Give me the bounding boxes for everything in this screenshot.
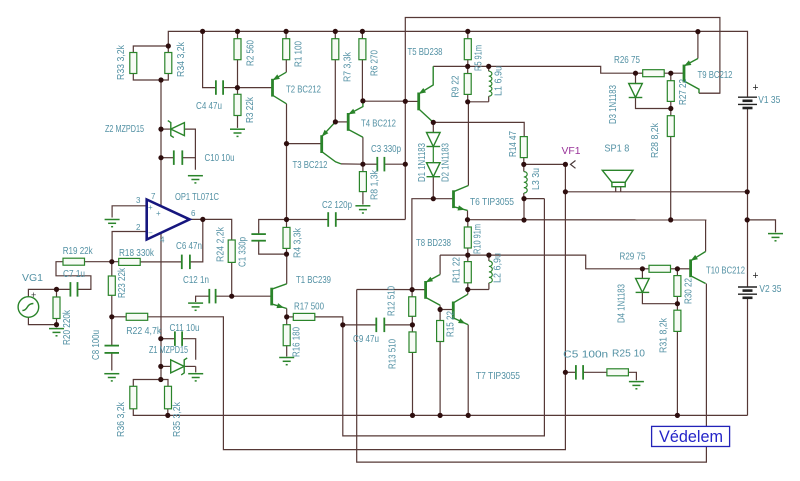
source VG1 <box>18 297 39 318</box>
ground R8 <box>355 206 370 213</box>
ground R3 <box>230 129 245 136</box>
node R33/R34 bottom <box>158 77 163 82</box>
svg-text:C6 47n: C6 47n <box>176 240 202 252</box>
wire L1 leads <box>488 66 490 71</box>
wire R5 bottom lead <box>467 60 469 67</box>
svg-text:2: 2 <box>136 223 141 232</box>
wire op-amp V+ column (node to Z2/C10) <box>160 80 162 206</box>
wire Z1/C11 ground stem <box>195 366 197 372</box>
svg-text:VG1: VG1 <box>22 272 43 284</box>
svg-text:R9 22: R9 22 <box>450 75 462 97</box>
wire R26 leads <box>636 72 643 74</box>
ground C8 <box>104 374 119 381</box>
transistor T8 BD238 PNP <box>426 275 441 306</box>
wire C4 branch <box>203 31 216 87</box>
wire L3 bottom to feedback column <box>524 198 544 200</box>
resistor R28 <box>667 116 674 137</box>
wire Z1 right lead <box>184 365 196 367</box>
wire R33/R34 bottom link <box>133 74 168 81</box>
svg-text:L3 3u: L3 3u <box>530 168 542 190</box>
svg-text:V2 35: V2 35 <box>759 283 781 295</box>
wire R6 leads <box>361 31 363 38</box>
svg-text:R4 3,3k: R4 3,3k <box>292 227 304 258</box>
capacitor C8 <box>105 346 120 353</box>
ground op-amp pin3 <box>105 220 120 227</box>
svg-text:R23 22k: R23 22k <box>116 267 128 298</box>
resistor R2 <box>234 39 241 60</box>
wire output node to VF1 <box>524 163 566 165</box>
wire R20 bottom to ground <box>56 319 58 328</box>
svg-text:T9 BC212: T9 BC212 <box>698 69 733 81</box>
svg-text:+: + <box>753 270 759 282</box>
node T5 base <box>403 99 408 104</box>
node y220 L3 <box>521 217 526 222</box>
wire T3 collector to C3/R8 node <box>341 163 363 165</box>
node rail R1 <box>284 29 289 34</box>
resistor R7 <box>332 39 339 60</box>
svg-text:C5 100n: C5 100n <box>563 349 608 361</box>
node R28 bottom <box>668 217 673 222</box>
node rail T9 emitter <box>695 29 700 34</box>
capacitor C3 <box>377 157 384 172</box>
svg-text:R29 75: R29 75 <box>620 251 646 263</box>
wire VG1 plus lead <box>28 289 70 296</box>
node Z1 <box>158 364 163 369</box>
wire C5 to R25 <box>583 371 607 373</box>
wire R16 leads <box>286 317 288 325</box>
svg-text:R17 500: R17 500 <box>294 301 324 313</box>
resistor R33 <box>130 53 137 74</box>
wire driver bias link <box>363 100 405 102</box>
svg-text:R11 22: R11 22 <box>450 257 462 283</box>
node R5/R9 <box>465 64 470 69</box>
resistor R24 <box>228 240 235 262</box>
wire R24 bottom to T1 base <box>232 262 271 296</box>
zener Z2 MZPD15 <box>168 121 185 138</box>
svg-text:C11 10u: C11 10u <box>170 322 200 334</box>
node T4 emitter/R6 <box>360 98 365 103</box>
wire D1-D2 link <box>432 147 434 163</box>
node R11 bottom/T7 collector <box>465 287 470 292</box>
wire R1 bottom lead <box>285 60 287 72</box>
wire R4 leads <box>286 220 288 228</box>
wire R11 leads <box>467 255 469 262</box>
capacitor C9 <box>376 318 384 333</box>
capacitor C4 <box>216 80 223 95</box>
svg-text:C4 47u: C4 47u <box>196 100 222 112</box>
wire R10 bottom lead <box>467 248 469 255</box>
svg-text:R28 8,2k: R28 8,2k <box>649 122 661 158</box>
svg-text:R22 4,7k: R22 4,7k <box>126 325 162 337</box>
node R27 bottom/D3 <box>668 106 673 111</box>
transistor T9 BC212 PNP <box>684 59 699 94</box>
svg-text:V1 35: V1 35 <box>758 94 780 106</box>
wire R22 left lead <box>112 316 126 318</box>
wire R10 leads <box>467 220 469 227</box>
wire op-amp pin3 to ground <box>112 206 147 218</box>
node input divider <box>109 259 114 264</box>
wire Z1 leads <box>161 365 171 367</box>
node R31 rail <box>675 413 680 418</box>
svg-text:R14 47: R14 47 <box>507 131 519 157</box>
node R4 bottom <box>284 252 289 257</box>
ground Z1/C11 <box>188 374 203 381</box>
wire T10 emitter column <box>705 220 707 252</box>
node L1 top <box>486 64 491 69</box>
wire L2 bottom lead <box>488 283 490 290</box>
svg-text:R34 3,2k: R34 3,2k <box>175 41 187 77</box>
capacitor C7 <box>70 282 77 297</box>
wire T1 emitter node <box>286 309 288 317</box>
node rail R6 <box>360 29 365 34</box>
svg-text:C9 47u: C9 47u <box>353 333 379 345</box>
wire C7 to R19 routing <box>56 262 91 290</box>
resistor R5 <box>464 39 471 60</box>
resistor R4 <box>283 227 290 248</box>
node pin6 output <box>200 217 205 222</box>
transistor T1 BC239 NPN <box>272 284 287 309</box>
wire R12 leads <box>411 290 413 297</box>
svg-text:Z1 MZPD15: Z1 MZPD15 <box>149 344 188 356</box>
wire R30 leads <box>676 269 678 276</box>
wire R17 left lead <box>287 316 294 318</box>
wire T6 base lead <box>433 198 452 200</box>
ground R25 <box>629 382 644 389</box>
capacitor C6 <box>182 255 190 270</box>
resistor R9 <box>464 74 471 95</box>
wire R18 right to C6 <box>140 261 182 263</box>
node L2 top <box>486 253 491 258</box>
wire D2 bottom lead <box>432 177 434 199</box>
wire op-amp output pin6 to R24 <box>190 219 232 240</box>
wire top frame (T9 collector to T5/T8 base column) <box>405 18 720 220</box>
wire C2 line (C1/R4 node to T9-frame column) <box>287 219 329 221</box>
ground C12 <box>188 303 203 310</box>
wire speaker leg 2 <box>620 187 622 192</box>
wire R2 top lead <box>237 31 239 38</box>
wire T9 collector to frame <box>699 92 720 94</box>
battery V1 35V <box>738 97 757 108</box>
wire R13 leads <box>411 325 413 332</box>
node rail R5 <box>465 29 470 34</box>
svg-text:Z2 MZPD15: Z2 MZPD15 <box>105 123 144 135</box>
node R34 top <box>166 43 171 48</box>
wire R8 bottom to ground <box>362 192 364 205</box>
transistor T3 BC212 PNP <box>322 122 341 164</box>
wire R3 leads <box>237 88 239 95</box>
wire R14 bottom to L3 <box>523 158 525 172</box>
node C4/R3/T2 base <box>235 85 240 90</box>
resistor R17 <box>293 313 315 320</box>
svg-text:D3 1N1183: D3 1N1183 <box>607 85 619 124</box>
svg-text:VF1: VF1 <box>562 145 581 157</box>
diode D3 1N1183 <box>629 84 643 98</box>
wire D3 leads <box>635 73 637 83</box>
probe VF1 tick <box>571 161 576 169</box>
wire C12 right lead <box>216 295 232 297</box>
node L3 bottom <box>521 196 526 201</box>
resistor R34 <box>165 53 172 74</box>
wire T8 base line <box>357 289 425 291</box>
svg-text:C1 330p: C1 330p <box>236 237 248 267</box>
capacitor C2 <box>328 212 336 227</box>
wire C1 parallel loop <box>259 220 287 235</box>
wire R26 right to T9 base <box>664 72 683 74</box>
wire bias line D1 to R14 <box>433 122 524 136</box>
wire VF1/C5 column <box>564 192 566 372</box>
wire T7 collector riser <box>467 290 469 295</box>
wire R1 leads <box>285 31 287 38</box>
capacitor C11 <box>175 331 182 346</box>
svg-text:R10 91m: R10 91m <box>472 224 484 254</box>
wire R11 bottom lead <box>467 283 469 290</box>
wire C6 right to op-amp output <box>190 219 203 262</box>
svg-text:T3 BC212: T3 BC212 <box>293 159 328 171</box>
node R7/T3 emitter/T4 base <box>333 119 338 124</box>
wire R7 bottom lead <box>334 60 336 122</box>
svg-text:L2 6,9u: L2 6,9u <box>492 253 504 283</box>
wire R15 bottom lead <box>439 342 441 416</box>
svg-text:D1 1N1183: D1 1N1183 <box>416 143 428 182</box>
wire Z2 right to ground stem <box>184 129 195 170</box>
wire T10 base lead <box>677 268 690 270</box>
svg-text:7: 7 <box>151 192 156 201</box>
wire op-amp pin2 to input node <box>112 232 147 262</box>
resistor R31 <box>674 310 681 331</box>
resistor R36 <box>130 386 137 409</box>
transistor T2 BC212 PNP <box>273 72 287 104</box>
wire positive supply rail <box>168 31 747 97</box>
resistor R8 <box>359 172 366 192</box>
capacitor C12 <box>209 289 215 304</box>
wire speaker legs <box>615 187 617 192</box>
wire R15 leads <box>439 310 441 321</box>
wire R8 top lead <box>362 164 364 171</box>
wire L3 bottom lead <box>523 193 525 199</box>
svg-text:R19 22k: R19 22k <box>63 245 94 257</box>
resistor R10 <box>464 227 471 248</box>
battery V2 35V <box>738 287 757 298</box>
wire bottom negative rail <box>133 409 747 416</box>
inductor L3 <box>524 172 527 193</box>
svg-text:R5 91m: R5 91m <box>473 45 485 71</box>
svg-text:R33 3,2k: R33 3,2k <box>115 44 127 80</box>
resistor R12 <box>409 297 416 317</box>
wire C5 leads <box>565 371 576 373</box>
wire C11 right riser <box>182 339 196 360</box>
node speaker left <box>563 189 568 194</box>
node R12/R13/C9 <box>410 322 415 327</box>
node T7 emitter rail <box>466 413 471 418</box>
capacitor C5 <box>576 365 583 380</box>
svg-text:T2 BC212: T2 BC212 <box>286 84 321 96</box>
wire R23 bottom lead <box>111 295 113 317</box>
svg-text:SP1 8: SP1 8 <box>604 143 629 155</box>
ground R16 <box>279 358 294 365</box>
wire main right ground stub <box>747 220 775 233</box>
wire battery V1 to V2 column <box>747 108 749 287</box>
wire R22 right to output sense loop <box>148 317 566 450</box>
svg-text:Védelem: Védelem <box>659 428 723 446</box>
resistor R27 <box>667 81 674 102</box>
node T1 emitter <box>284 314 289 319</box>
wire R9 leads <box>467 66 469 73</box>
wire C9 node to output loop <box>343 199 545 436</box>
node C1/C2/R4 top <box>284 217 289 222</box>
svg-text:T8 BD238: T8 BD238 <box>416 237 451 249</box>
node R35 bottom <box>165 413 170 418</box>
wire R16 bottom to ground <box>286 346 288 357</box>
svg-text:D4 1N1183: D4 1N1183 <box>615 284 627 323</box>
wire output emitter rail y220 <box>468 219 707 221</box>
wire R36/R35 top link <box>133 380 168 387</box>
wire T9 emitter to rail <box>697 32 699 59</box>
wire R9 bottom lead <box>467 94 469 101</box>
node D2 bottom/T6 base <box>431 196 436 201</box>
node C10 <box>158 155 163 160</box>
svg-text:+: + <box>753 82 759 94</box>
wire R5 top lead <box>467 31 469 38</box>
wire C8 bottom lead <box>111 353 113 371</box>
wire R29 right lead <box>671 268 678 270</box>
inductor L1 <box>489 71 492 96</box>
wire T8 collector to T7 base node <box>439 305 441 309</box>
node C11 <box>158 336 163 341</box>
svg-text:T6 TIP3055: T6 TIP3055 <box>470 196 514 208</box>
svg-text:OP1 TL071C: OP1 TL071C <box>175 191 219 203</box>
wire C11 leads <box>161 338 175 340</box>
node C12/T1 base <box>229 294 234 299</box>
wire T8 base to protection line4 <box>357 284 707 463</box>
resistor R20 <box>53 297 60 319</box>
node VG1 minus <box>54 322 59 327</box>
wire T1 collector to R4 node <box>286 254 288 284</box>
svg-text:L1 6,9u: L1 6,9u <box>493 66 505 96</box>
node speaker rail right <box>745 189 750 194</box>
wire C9 right lead <box>384 324 412 326</box>
resistor R13 <box>409 332 416 353</box>
svg-text:4: 4 <box>160 236 165 245</box>
wire C1 bottom link <box>259 241 287 254</box>
node T6 emitter <box>465 217 470 222</box>
node R13 rail <box>410 413 415 418</box>
ground Z2/C10 <box>188 176 203 183</box>
node C3 right <box>403 162 408 167</box>
wire R29 leads <box>642 268 649 270</box>
diode D1 1N1183 <box>427 133 441 147</box>
wire D3 bottom to R27 node <box>636 98 671 109</box>
node Z2 <box>158 127 163 132</box>
wire T7 base lead <box>440 309 452 311</box>
wire T2 base line <box>237 87 272 89</box>
svg-text:C3 330p: C3 330p <box>371 143 401 155</box>
wire T6 collector to R9/L1 node <box>467 102 469 186</box>
wire battery V2 to bottom rail <box>747 298 749 415</box>
wire R34 top lead <box>167 46 169 53</box>
wire T4 base link <box>335 121 347 123</box>
node rail R7 <box>333 29 338 34</box>
wire R20 leads <box>56 289 58 297</box>
node R9/L1 bottom <box>465 99 470 104</box>
svg-text:C8 100u: C8 100u <box>90 330 102 360</box>
svg-text:R31 8,2k: R31 8,2k <box>658 317 670 353</box>
resistor R16 <box>283 325 290 346</box>
transistor T7 TIP3055 NPN <box>453 294 468 325</box>
node T7 base <box>438 307 443 312</box>
svg-text:R30 22: R30 22 <box>683 278 695 304</box>
svg-text:R3 22k: R3 22k <box>244 96 256 123</box>
node ground stub <box>745 217 750 222</box>
node T3 base <box>284 141 289 146</box>
resistor R25 <box>607 369 629 376</box>
wire C2 right lead <box>336 219 406 221</box>
capacitor C1 <box>251 234 266 241</box>
wire C4 right lead <box>223 87 237 89</box>
wire C3 leads <box>363 163 377 165</box>
node D4 top/R29 <box>640 266 645 271</box>
wire R12 bottom lead <box>411 316 413 325</box>
resistor R35 <box>165 386 172 409</box>
svg-text:R36 3,2k: R36 3,2k <box>115 401 127 437</box>
node rail R2 <box>235 29 240 34</box>
wire speaker rail <box>565 191 747 193</box>
wire R31 leads <box>676 304 678 311</box>
resistor R18 <box>119 258 141 265</box>
wire T7 emitter to bottom rail <box>467 325 469 416</box>
op-amp OP1 TL071C <box>147 200 190 240</box>
wire R35 bottom lead <box>167 409 169 416</box>
svg-text:R20 220k: R20 220k <box>61 309 73 345</box>
svg-text:R1 100: R1 100 <box>293 41 305 67</box>
wire R33/R34 top link <box>133 46 168 53</box>
svg-text:R25 10: R25 10 <box>612 348 645 360</box>
svg-text:R8 1,3k: R8 1,3k <box>369 169 381 200</box>
wire C10 right lead <box>182 157 195 159</box>
wire C8 branch to ground <box>111 317 113 346</box>
wire R25 right to ground <box>628 372 636 380</box>
svg-text:R13 510: R13 510 <box>386 339 398 369</box>
svg-text:T4 BC212: T4 BC212 <box>361 118 396 130</box>
node D1 top <box>431 120 436 125</box>
wire R27 bottom to R28 <box>670 101 672 115</box>
resistor R15 <box>437 321 444 342</box>
wire driver rail y66 <box>433 66 635 73</box>
svg-text:T7 TIP3055: T7 TIP3055 <box>476 370 520 382</box>
transistor T5 BD238 PNP <box>419 66 434 122</box>
wire R6 bottom lead <box>361 60 363 101</box>
svg-text:R12 510: R12 510 <box>386 286 398 316</box>
resistor R23 <box>108 276 115 295</box>
node T8 base <box>410 287 415 292</box>
svg-text:+: + <box>156 209 161 218</box>
transistor T10 BC212 PNP <box>691 252 706 284</box>
node VF1 <box>563 162 568 167</box>
wire lower rail y255 (R10/R11 node) <box>440 255 642 269</box>
resistor R19 <box>63 258 85 265</box>
node T10 base/R30 <box>675 266 680 271</box>
resistor R22 <box>126 313 148 320</box>
svg-text:R18 330k: R18 330k <box>119 247 155 259</box>
wire R13 bottom lead <box>412 352 414 415</box>
svg-text:C10 10u: C10 10u <box>205 152 235 164</box>
node R22/C8 <box>109 314 114 319</box>
svg-text:3: 3 <box>136 196 141 205</box>
inductor L2 <box>489 261 492 283</box>
node C9 left <box>340 322 345 327</box>
resistor R26 <box>643 70 665 77</box>
node rail C4 <box>200 29 205 34</box>
wire T8 emitter riser <box>439 255 441 274</box>
